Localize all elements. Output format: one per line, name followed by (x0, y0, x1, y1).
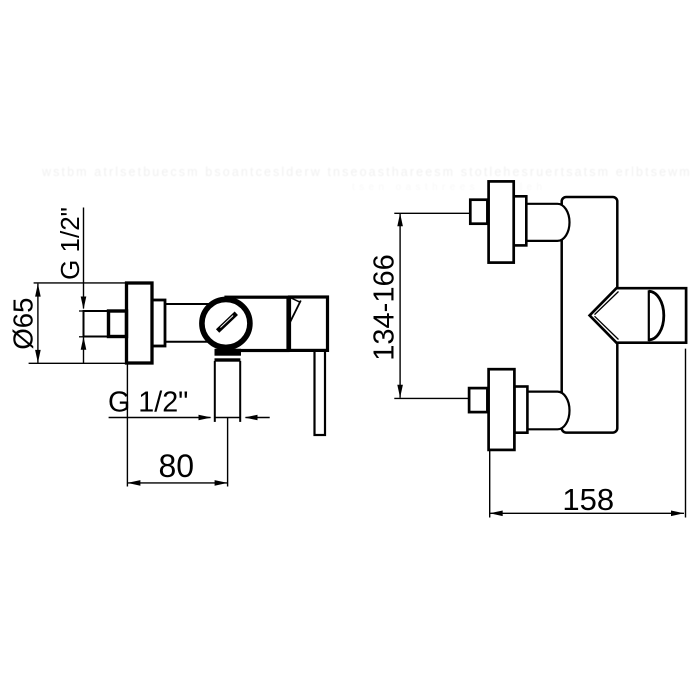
top union step (514, 196, 527, 245)
svg-text:80: 80 (159, 448, 195, 484)
dim line G12 vertical lower (83, 338, 85, 364)
svg-text:wstbm atrlsetbuecsm bsoantcesl: wstbm atrlsetbuecsm bsoantceslderw tnseo… (41, 165, 690, 179)
body (562, 197, 618, 433)
tube bottom line (165, 341, 209, 343)
top union bulge fill (545, 204, 570, 241)
knob circle (202, 299, 250, 347)
arrow 158 left (490, 511, 503, 517)
arrow G12v down (81, 297, 87, 310)
outlet pipe left line (214, 361, 216, 422)
threaded nipple (109, 311, 127, 337)
dim line G12 horizontal seg3 (246, 417, 270, 419)
ext line flange bottom (29, 362, 127, 364)
dim line G12 horizontal seg1 (109, 417, 211, 419)
dim line 80 (127, 482, 227, 484)
arrow 158 right (671, 511, 684, 517)
handle base (290, 297, 328, 350)
bottom union step (514, 387, 527, 433)
tick pipe bottom (79, 336, 86, 338)
top union nut (470, 200, 487, 224)
ext line 158 right (685, 349, 687, 518)
dim line D65 (37, 284, 39, 363)
arrow 80 left (127, 480, 140, 486)
flange step (152, 300, 165, 346)
arrow G12h right (199, 415, 212, 421)
inlet pipe (84, 311, 109, 337)
lever neck diagonal 2 (290, 301, 301, 323)
collar band 1 (215, 349, 242, 356)
svg-text:G 1/2": G 1/2" (108, 387, 188, 419)
ext line 80 left (126, 364, 128, 487)
watermark band (41, 165, 690, 193)
bottom union pipe (527, 392, 557, 430)
holder inner diagonal bottom (595, 316, 619, 339)
svg-text:158: 158 (562, 482, 614, 517)
ext line bottom nut (394, 397, 469, 399)
lever rod (315, 350, 326, 435)
holder cup chord (648, 290, 650, 341)
bottom union bulge arc (558, 392, 570, 430)
collar band 2 (215, 358, 241, 361)
arrow 134 up (397, 213, 403, 226)
wall flange (127, 283, 153, 363)
shower holder (590, 288, 687, 343)
bottom union nut (469, 388, 487, 412)
svg-text:G 1/2": G 1/2" (55, 207, 85, 280)
ext line 158 left (489, 451, 491, 518)
dim line G12 horizontal seg2 (215, 417, 240, 419)
lever neck diagonal 1 (290, 298, 300, 303)
valve housing (226, 297, 288, 350)
bottom union flange (489, 369, 515, 450)
svg-text:134-166: 134-166 (369, 254, 401, 360)
ext line 80 right (227, 418, 229, 487)
arrow D65 up (35, 284, 41, 297)
outlet pipe right line (239, 361, 241, 422)
svg-text:Ø65: Ø65 (8, 298, 39, 350)
ext line flange top (34, 282, 127, 284)
top union bulge arc (558, 204, 570, 241)
tube top line (165, 303, 209, 305)
bottom union bulge fill (545, 392, 570, 430)
holder cup arc (649, 291, 664, 340)
dim line 134-166 (399, 213, 401, 397)
holder inner diagonal top (595, 292, 619, 315)
arrow 134 down (397, 385, 403, 398)
top union flange (489, 181, 514, 262)
knob slot (218, 313, 237, 331)
ext line top nut (394, 212, 470, 214)
arrow G12v up (81, 337, 87, 350)
dim line 158 (490, 512, 684, 514)
top union pipe (526, 204, 557, 241)
arrow G12h left (245, 415, 258, 421)
dim line G12 vertical upper (83, 208, 85, 309)
arrow D65 down (35, 350, 41, 363)
tick pipe top (79, 310, 86, 312)
arrow 80 right (215, 480, 228, 486)
